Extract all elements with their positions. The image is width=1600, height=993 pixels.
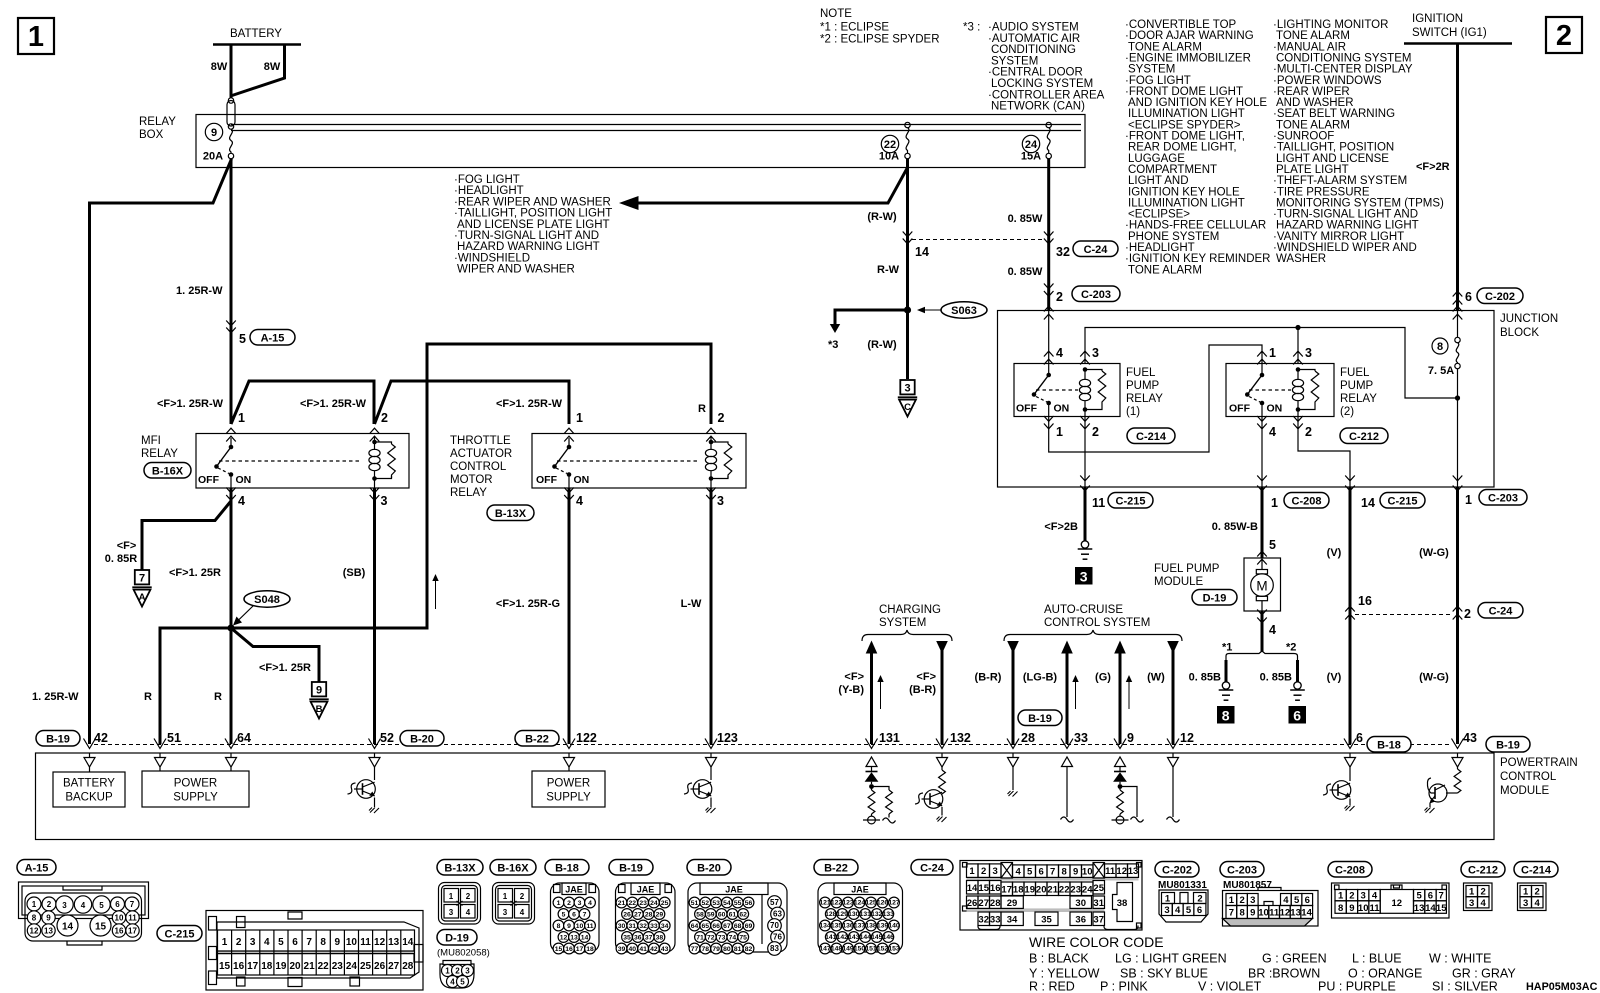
wire to star3 systems [835,310,908,325]
wire S048 to pin 64 [230,628,233,744]
svg-text:14: 14 [1361,496,1375,510]
svg-text:*3: *3 [828,339,838,351]
svg-text:60: 60 [718,912,726,919]
svg-text:83: 83 [770,944,779,953]
page ref 8 black [1217,706,1235,724]
svg-text:CONTROL: CONTROL [1500,771,1557,783]
svg-text:2: 2 [981,866,986,877]
transistor pin 123 [710,767,712,780]
svg-text:C-215: C-215 [1388,496,1418,508]
svg-text:9: 9 [1073,867,1078,878]
pcm internal pin triangles [84,753,1463,767]
svg-text:<F>1. 25R: <F>1. 25R [259,662,311,674]
svg-text:MODULE: MODULE [1154,576,1204,588]
svg-text:SYSTEM: SYSTEM [879,617,926,629]
wire MFI pin4 down to S048 [230,488,233,628]
svg-text:10: 10 [115,914,124,923]
svg-text:CHARGING: CHARGING [879,604,941,616]
wire coil feed bus [1085,328,1458,399]
svg-text:B-13X: B-13X [495,508,527,520]
svg-text:RELAY: RELAY [139,116,176,128]
svg-text:12: 12 [1116,866,1127,877]
svg-text:11: 11 [1105,866,1116,877]
wire relay1 pin2 to jb bottom [1084,417,1086,488]
svg-text:82: 82 [745,946,753,953]
svg-text:137: 137 [854,923,866,930]
svg-text:1: 1 [576,411,583,425]
svg-text:A: A [139,592,146,603]
svg-text:5: 5 [1269,538,1276,552]
svg-text:149: 149 [842,946,854,953]
svg-text:14: 14 [1301,908,1312,919]
svg-text:24: 24 [650,900,658,907]
svg-text:36: 36 [1075,915,1086,926]
svg-text:19: 19 [275,961,287,972]
wire battery left 8W [230,45,233,98]
svg-text:A-15: A-15 [261,333,285,345]
svg-text:8: 8 [1222,708,1230,724]
svg-text:125: 125 [865,900,877,907]
svg-text:MU801331: MU801331 [1158,880,1207,891]
svg-text:21: 21 [618,900,626,907]
svg-text:6: 6 [1293,708,1301,724]
svg-text:7: 7 [1050,867,1055,878]
svg-text:81: 81 [734,946,742,953]
svg-text:51: 51 [167,731,181,745]
svg-text:3: 3 [1250,895,1255,906]
svg-text:B-20: B-20 [697,863,721,875]
svg-text:M: M [1256,579,1267,594]
svg-text:31: 31 [629,923,637,930]
svg-text:25: 25 [661,900,669,907]
wire MFI pin1 to pin2 loop [231,381,374,424]
svg-text:13: 13 [388,937,400,948]
svg-text:21: 21 [1047,884,1058,895]
svg-text:54: 54 [723,900,731,907]
svg-text:HAZARD WARNING LIGHT: HAZARD WARNING LIGHT [457,241,600,253]
svg-text:1: 1 [32,900,37,909]
svg-text:23: 23 [332,961,344,972]
svg-text:(2): (2) [1340,406,1354,418]
svg-text:(W-G): (W-G) [1419,672,1449,684]
svg-text:S063: S063 [951,305,977,317]
svg-text:PUMP: PUMP [1126,380,1160,392]
svg-text:JAE: JAE [637,885,655,895]
auto-cruise brace [1004,630,1182,641]
svg-text:10: 10 [1082,867,1093,878]
svg-text:B-19: B-19 [46,734,70,746]
svg-text:3: 3 [62,901,67,910]
svg-text:3: 3 [578,900,582,907]
arrow up beside 131 [880,679,882,709]
crossing 2 C-24 [1453,606,1463,611]
connector B-19 [609,860,653,876]
svg-text:3: 3 [1361,891,1366,902]
svg-text:16: 16 [115,927,124,936]
svg-text:23: 23 [1070,884,1081,895]
relay2 pin3 chevrons [1293,351,1303,356]
svg-text:153: 153 [888,946,900,953]
svg-text:25: 25 [360,961,372,972]
fuel pump relay 2 box [1226,364,1334,417]
svg-text:38: 38 [1117,898,1128,909]
wire battery right 8W [232,45,285,96]
svg-text:2: 2 [1239,895,1244,906]
svg-text:ILLUMINATION LIGHT: ILLUMINATION LIGHT [1128,197,1245,209]
svg-text:67: 67 [723,923,731,930]
svg-text:11: 11 [360,937,371,948]
svg-text:·HANDS-FREE CELLULAR: ·HANDS-FREE CELLULAR [1125,220,1266,232]
svg-text:ON: ON [236,474,252,486]
connector A-15 [17,860,56,876]
svg-text:C-202: C-202 [1162,865,1192,877]
svg-text:2: 2 [455,967,460,976]
svg-text:36: 36 [634,935,642,942]
svg-text:HAZARD WARNING LIGHT: HAZARD WARNING LIGHT [1276,220,1419,232]
svg-text:·REAR WIPER AND WASHER: ·REAR WIPER AND WASHER [454,196,611,208]
svg-text:14: 14 [402,937,414,948]
note list column 2 [1125,19,1270,276]
relay2 resistor [1298,370,1315,372]
svg-text:4: 4 [588,900,592,907]
svg-text:AUTO-CRUISE: AUTO-CRUISE [1044,604,1123,616]
svg-text:(W-G): (W-G) [1419,547,1449,559]
node coil feed junction [1455,395,1460,400]
svg-text:148: 148 [831,946,843,953]
connector crossing 32 C-24 [1044,232,1054,237]
svg-text:8: 8 [32,914,37,923]
connector B-19 ref [1018,710,1062,726]
svg-text:7: 7 [130,900,135,909]
svg-text:20: 20 [289,961,301,972]
svg-text:68: 68 [734,923,742,930]
svg-text:1: 1 [1469,887,1475,898]
wire MFI pin2 to throttle pin1 [375,381,570,424]
svg-text:33: 33 [650,923,658,930]
svg-text:1: 1 [1465,493,1472,507]
svg-text:24: 24 [346,961,358,972]
svg-text:4: 4 [1535,898,1541,909]
svg-text:PU : PURPLE: PU : PURPLE [1318,980,1396,993]
svg-text:(B-R): (B-R) [909,684,936,696]
svg-text:SYSTEM: SYSTEM [1128,64,1175,76]
svg-text:131: 131 [879,731,900,745]
svg-text:3: 3 [1092,346,1099,360]
crossing 16 [1345,606,1355,611]
connector crossing 2 C-203 [1044,284,1054,289]
svg-text:·REAR WIPER: ·REAR WIPER [1273,86,1350,98]
bus bar wires [231,124,1081,126]
svg-text:22: 22 [1059,884,1070,895]
svg-text:7: 7 [1229,908,1234,919]
svg-text:53: 53 [712,900,720,907]
svg-text:14: 14 [62,922,74,933]
svg-text:SUPPLY: SUPPLY [546,792,591,804]
wire MFI pin3 to PCM 52 [373,488,376,744]
svg-text:3: 3 [503,908,508,917]
svg-text:CONTROL: CONTROL [450,461,507,473]
svg-text:52: 52 [380,731,394,745]
fog light feed list [454,174,612,276]
svg-text:29: 29 [656,912,664,919]
fuse 8 7.5A in junction block [1457,311,1459,338]
svg-text:3: 3 [717,494,724,508]
svg-text:(Y-B): (Y-B) [838,684,864,696]
svg-text:30: 30 [618,923,626,930]
svg-text:56: 56 [745,900,753,907]
svg-text:C-212: C-212 [1468,865,1498,877]
svg-text:22: 22 [629,900,637,907]
svg-text:2: 2 [1556,20,1572,52]
ground star2 [1290,682,1305,700]
svg-text:·AUTOMATIC AIR: ·AUTOMATIC AIR [988,33,1080,45]
svg-text:10: 10 [576,923,584,930]
ground star1 [1219,682,1234,700]
svg-text:69: 69 [745,923,753,930]
page ref box 2 [1546,17,1582,53]
svg-text:4: 4 [81,901,86,910]
svg-text:17: 17 [128,927,137,936]
fuse 22 [881,135,898,152]
svg-text:13: 13 [1414,903,1425,914]
svg-text:6: 6 [1305,895,1310,906]
svg-text:Y : YELLOW: Y : YELLOW [1029,967,1100,981]
svg-text:POWER: POWER [547,778,590,790]
svg-text:6: 6 [572,912,576,919]
relay1 switch [1046,373,1051,378]
svg-text:28: 28 [402,961,414,972]
svg-text:(B-R): (B-R) [975,672,1002,684]
svg-text:7: 7 [139,573,145,585]
svg-text:2: 2 [1056,290,1063,304]
svg-text:MONITORING SYSTEM (TPMS): MONITORING SYSTEM (TPMS) [1276,197,1444,209]
svg-text:31: 31 [1093,898,1104,909]
svg-text:134: 134 [819,923,831,930]
svg-text:35: 35 [623,935,631,942]
svg-text:126: 126 [877,900,889,907]
svg-text:C-24: C-24 [1084,244,1109,256]
svg-text:C-24: C-24 [920,863,945,875]
svg-text:3: 3 [1469,898,1474,909]
svg-text:27: 27 [978,898,989,909]
svg-text:16: 16 [1358,594,1372,608]
svg-text:C-203: C-203 [1488,493,1518,505]
svg-text:2: 2 [236,937,242,948]
svg-text:·CONTROLLER AREA: ·CONTROLLER AREA [988,89,1105,101]
svg-text:11: 11 [1092,496,1105,510]
ignition wire jb exit chevrons [1453,476,1463,481]
svg-text:11: 11 [586,923,593,930]
svg-text:0. 85W-B: 0. 85W-B [1212,521,1258,533]
svg-text:RELAY: RELAY [1126,393,1163,405]
svg-text:RELAY: RELAY [141,448,178,460]
svg-text:NETWORK (CAN): NETWORK (CAN) [991,101,1085,113]
svg-text:BACKUP: BACKUP [65,792,113,804]
svg-text:·SEAT BELT WARNING: ·SEAT BELT WARNING [1273,108,1395,120]
svg-text:6: 6 [1465,290,1472,304]
svg-text:B: B [316,704,323,715]
svg-text:147: 147 [819,946,831,953]
svg-text:2: 2 [1305,425,1312,439]
pin 1 [226,428,236,433]
connector B-22 [814,860,858,876]
svg-text:FUEL PUMP: FUEL PUMP [1154,563,1220,575]
svg-text:3: 3 [381,494,388,508]
svg-text:9: 9 [46,914,51,923]
svg-text:1: 1 [503,892,508,901]
svg-text:18: 18 [1013,884,1024,895]
wire to PCM 12 [1172,641,1175,744]
svg-text:26: 26 [374,961,386,972]
svg-text:66: 66 [712,923,720,930]
connector B-16X [490,860,536,876]
svg-text:C-214: C-214 [1521,865,1552,877]
svg-text:32: 32 [1056,245,1070,259]
svg-text:BOX: BOX [139,129,164,141]
svg-text:2: 2 [1535,887,1540,898]
svg-text:43: 43 [661,946,669,953]
svg-text:*1 : ECLIPSE: *1 : ECLIPSE [820,22,889,34]
wire to PCM 9 [1119,653,1122,744]
svg-text:·FOG LIGHT: ·FOG LIGHT [454,174,520,186]
svg-text:78: 78 [702,946,710,953]
svg-text:<F>1. 25R-W: <F>1. 25R-W [496,398,563,410]
svg-text:5: 5 [1416,891,1422,902]
wire star1 ground stub [1225,660,1228,682]
svg-text:24: 24 [1025,139,1038,151]
svg-text:0. 85W: 0. 85W [1008,213,1043,225]
wire fuse9 to MFI relay pin1 [230,159,233,425]
svg-text:61: 61 [729,912,737,919]
svg-text:JAE: JAE [565,885,583,895]
wire relay2 pin4 to jb bottom [1261,417,1263,488]
svg-text:2: 2 [1481,887,1486,898]
svg-text:<F>1. 25R-G: <F>1. 25R-G [496,598,560,610]
svg-text:4: 4 [264,937,270,948]
svg-text:B-19: B-19 [1028,713,1052,725]
connector crossing 14 [903,232,913,237]
svg-text:8: 8 [1338,903,1343,914]
svg-text:<F>: <F> [844,671,864,683]
pin 3 [706,488,716,493]
dashed line 16 to 2 C-24 [1355,614,1452,616]
svg-text:130: 130 [848,911,860,918]
svg-text:18: 18 [261,961,273,972]
svg-text:3: 3 [1080,569,1088,585]
svg-text:4: 4 [1283,895,1289,906]
arrow up beside 9 [1128,679,1130,709]
svg-text:141: 141 [825,934,837,941]
svg-text:29: 29 [1007,898,1018,909]
svg-text:BATTERY: BATTERY [63,778,115,790]
fuel pump module pin 4 [1257,610,1267,615]
svg-text:1. 25R-W: 1. 25R-W [176,285,223,297]
pin9 diode resistor [1119,767,1121,773]
svg-text:5: 5 [1186,905,1192,916]
svg-text:9: 9 [316,685,322,697]
svg-text:O : ORANGE: O : ORANGE [1348,967,1422,981]
relay1 pin3 chevrons [1080,351,1090,356]
svg-text:39: 39 [618,946,626,953]
pin 122 B-22 [515,731,559,747]
svg-text:(R-W): (R-W) [867,211,897,223]
svg-text:8W: 8W [264,61,281,73]
svg-text:4: 4 [238,494,245,508]
wire to PCM 28 [1012,641,1015,744]
svg-text:4: 4 [1372,891,1378,902]
svg-text:128: 128 [825,911,837,918]
svg-text:73: 73 [718,935,726,942]
svg-text:(W): (W) [1147,672,1165,684]
svg-text:WIRE COLOR CODE: WIRE COLOR CODE [1029,934,1164,950]
throttle relay resistor [711,442,728,444]
svg-text:1: 1 [557,900,561,907]
ground fuel pump relay1 [1078,541,1093,559]
svg-text:59: 59 [707,912,715,919]
svg-text:71: 71 [696,935,704,942]
svg-text:63: 63 [773,910,782,919]
svg-text:14: 14 [1425,903,1436,914]
svg-text:B-18: B-18 [555,863,579,875]
pin 1 [564,428,574,433]
svg-text:A-15: A-15 [25,863,49,875]
svg-text:RELAY: RELAY [1340,393,1377,405]
relay2 pin4 [1257,416,1267,421]
svg-text:131: 131 [860,911,872,918]
splice S048 [244,591,290,607]
svg-text:AND LICENSE PLATE LIGHT: AND LICENSE PLATE LIGHT [457,219,610,231]
svg-text:<F>1. 25R-W: <F>1. 25R-W [157,398,224,410]
relay1 pin2 [1080,416,1090,421]
svg-text:77: 77 [691,946,699,953]
page ref box 1 [18,18,54,54]
connector B-20 [687,860,731,876]
svg-text:34: 34 [661,923,669,930]
svg-text:ON: ON [574,474,590,486]
svg-text:HAP05M03AC: HAP05M03AC [1526,981,1598,993]
svg-text:OFF: OFF [536,474,558,486]
wire branch to PCM pin42 [90,159,232,744]
pin33 input [1066,767,1068,818]
svg-text:D-19: D-19 [445,933,469,945]
svg-text:PUMP: PUMP [1340,380,1374,392]
svg-text:70: 70 [770,921,779,930]
connector C-214 [1514,862,1558,878]
svg-text:26: 26 [623,912,631,919]
wire to PCM 132 [941,641,944,744]
svg-text:B-20: B-20 [410,734,434,746]
svg-text:(LG-B): (LG-B) [1023,672,1058,684]
svg-text:WASHER: WASHER [1276,253,1326,265]
svg-text:42: 42 [650,946,658,953]
svg-text:·FRONT DOME LIGHT,: ·FRONT DOME LIGHT, [1125,131,1245,143]
svg-text:8: 8 [1239,908,1244,919]
svg-text:·LIGHTING MONITOR: ·LIGHTING MONITOR [1273,19,1388,31]
svg-text:2: 2 [1349,891,1354,902]
arrow up beside 33 [1075,679,1077,709]
svg-text:JAE: JAE [851,885,869,895]
svg-text:W : WHITE: W : WHITE [1429,952,1492,966]
svg-text:1: 1 [28,21,44,53]
svg-text:124: 124 [854,900,866,907]
svg-text:51: 51 [691,900,699,907]
svg-text:2: 2 [381,411,388,425]
svg-text:7. 5A: 7. 5A [1428,365,1454,377]
transistor pin 52 [374,767,376,780]
node S063 junction [904,306,911,313]
svg-text:*2: *2 [1286,642,1296,654]
fuel pump relay 1 box [1014,364,1120,417]
